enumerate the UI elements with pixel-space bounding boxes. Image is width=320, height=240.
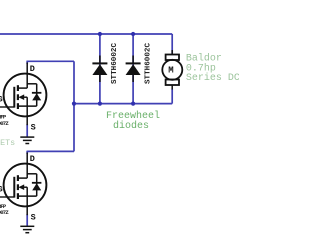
svg-text:Freewheel: Freewheel — [106, 110, 160, 122]
svg-text:Series DC: Series DC — [186, 72, 239, 84]
svg-text:M: M — [168, 66, 173, 76]
wire diode D2 branch — [132, 34, 134, 104]
wire diode D1 branch — [99, 34, 101, 104]
junction bottom rail / D1 — [98, 102, 102, 106]
wire Q1 drain — [27, 60, 74, 62]
wire drain tie vertical — [73, 61, 75, 151]
svg-text:S: S — [31, 213, 36, 223]
transistor Q1 — [0, 63, 46, 126]
wire Q1 drain corner stub — [26, 61, 28, 64]
wire motor bottom — [171, 89, 173, 104]
svg-text:MOSFETs: MOSFETs — [0, 138, 15, 148]
ground Q2 — [20, 226, 34, 232]
transistor Q2 — [0, 153, 46, 216]
wire motor top — [171, 34, 173, 55]
svg-text:D: D — [30, 64, 35, 74]
junction bottom rail / D2 — [131, 102, 135, 106]
ground Q1 — [20, 137, 34, 143]
svg-text:diodes: diodes — [113, 120, 149, 132]
svg-text:G: G — [0, 94, 3, 104]
junction top rail / D2 — [131, 32, 135, 36]
wire Q2 drain corner stub — [26, 151, 28, 154]
junction bottom rail / drain tie — [72, 102, 76, 106]
wire Q2 drain — [27, 150, 74, 152]
wire bottom rail — [74, 103, 172, 105]
wire Q2 source to ground — [26, 214, 28, 226]
motor M — [162, 50, 182, 90]
svg-text:D: D — [30, 154, 35, 164]
diode D2 — [126, 56, 141, 83]
diode D1 — [92, 56, 107, 83]
svg-text:G: G — [0, 184, 3, 194]
wire Q1 source to ground — [26, 124, 28, 137]
svg-text:S: S — [31, 123, 36, 133]
svg-text:STTH6002C: STTH6002C — [144, 43, 152, 84]
junction top rail / D1 — [98, 32, 102, 36]
svg-text:STTH6002C: STTH6002C — [111, 43, 119, 84]
wire top rail — [0, 33, 172, 35]
